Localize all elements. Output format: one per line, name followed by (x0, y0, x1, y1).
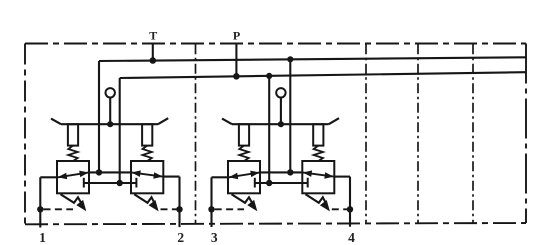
junction P rail to valve group group 2 (266, 73, 272, 79)
pilot dashed line valve V1 (44, 208, 74, 210)
valve body valve V3 (228, 161, 260, 193)
valve body valve V2 (131, 161, 163, 193)
rocker bar group 2 (232, 123, 329, 125)
flow arrow valve V1 (58, 172, 89, 177)
junction drain on port line 4 (347, 206, 353, 212)
junction P stub on P rail (233, 73, 240, 80)
rocker left wing group 1 (51, 119, 61, 125)
joystick handle ball group 2 (276, 88, 285, 97)
svg-text:3: 3 (211, 230, 218, 245)
svg-text:4: 4 (348, 230, 355, 245)
wire tank gallery group 2 (260, 171, 302, 173)
svg-text:2: 2 (177, 230, 184, 245)
junction drain on port line 2 (176, 206, 182, 212)
rocker left wing group 2 (222, 119, 232, 125)
blocked port crossbar valve V1 (83, 178, 85, 188)
wire T drop group 1 (98, 61, 100, 172)
section divider line 3 (417, 44, 419, 223)
spring valve V3 (239, 146, 248, 161)
section divider line 2 (365, 44, 367, 223)
svg-text:1: 1 (39, 230, 46, 245)
junction drain on port line 3 (208, 206, 214, 212)
joystick handle ball group 1 (106, 88, 115, 97)
blocked port crossbar valve V4 (307, 178, 309, 188)
plunger valve V2 (142, 124, 152, 145)
junction T rail to valve group group 2 (287, 56, 293, 62)
wire T drop group 2 (289, 59, 291, 172)
blocked port crossbar valve V2 (135, 178, 137, 188)
enclosure border top (25, 43, 526, 45)
joystick handle stem group 1 (109, 97, 111, 124)
enclosure border bottom (25, 223, 526, 224)
drain arrow valve V3 (232, 194, 253, 203)
junction P drop on pressure gallery group 2 (266, 180, 272, 186)
wire tank gallery group 1 (89, 171, 131, 173)
blocked port crossbar valve V3 (254, 178, 256, 188)
rocker right wing group 2 (329, 118, 339, 124)
spring valve V1 (68, 146, 77, 161)
flow arrow valve V4 (302, 172, 333, 176)
spring valve V4 (314, 146, 323, 161)
wire outlet valve V1 to port 1 (40, 176, 57, 178)
junction handle stem on rocker group 1 (107, 121, 113, 127)
wire P rail (pressure line) (120, 72, 526, 78)
junction T drop on tank gallery group 2 (287, 169, 293, 175)
enclosure border left (24, 44, 26, 225)
svg-text:P: P (233, 29, 240, 43)
junction P drop on pressure gallery group 1 (117, 180, 123, 186)
junction T drop on tank gallery group 1 (96, 169, 102, 175)
wire outlet valve V4 to port 4 (334, 176, 350, 178)
wire pressure gallery group 2 (255, 182, 308, 184)
plunger valve V1 (68, 124, 78, 145)
section divider line 4 (472, 44, 474, 223)
valve body valve V4 (302, 161, 334, 193)
wire T rail (tank line) (99, 57, 526, 61)
pilot dashed line valve V4 (332, 208, 348, 210)
pilot dashed line valve V2 (161, 208, 177, 210)
valve body valve V1 (57, 161, 89, 193)
pilot dashed line valve V3 (215, 208, 244, 210)
enclosure border right (525, 44, 527, 224)
flow arrow valve V3 (229, 172, 260, 177)
joystick handle stem group 2 (280, 97, 282, 124)
junction drain on port line 1 (37, 206, 43, 212)
wire P drop group 2 (268, 76, 270, 183)
plunger valve V3 (239, 124, 249, 145)
wire T stub from border (152, 44, 154, 61)
wire outlet valve V3 to port 3 (212, 176, 229, 178)
wire P stub from border (235, 44, 237, 76)
plunger valve V4 (313, 124, 323, 145)
rocker bar group 1 (61, 123, 158, 125)
rocker right wing group 1 (158, 118, 168, 124)
junction handle stem on rocker group 2 (278, 121, 284, 127)
spring valve V2 (143, 146, 152, 161)
flow arrow valve V2 (131, 172, 163, 176)
junction T stub on T rail (150, 57, 157, 64)
drain arrow valve V2 (134, 194, 154, 203)
drain arrow valve V1 (61, 194, 82, 203)
drain arrow valve V4 (306, 194, 326, 203)
wire P drop group 1 (119, 78, 121, 183)
svg-text:T: T (149, 29, 157, 43)
section divider line 1 (195, 44, 197, 224)
wire pressure gallery group 1 (84, 182, 137, 184)
wire outlet valve V2 to port 2 (163, 176, 179, 178)
